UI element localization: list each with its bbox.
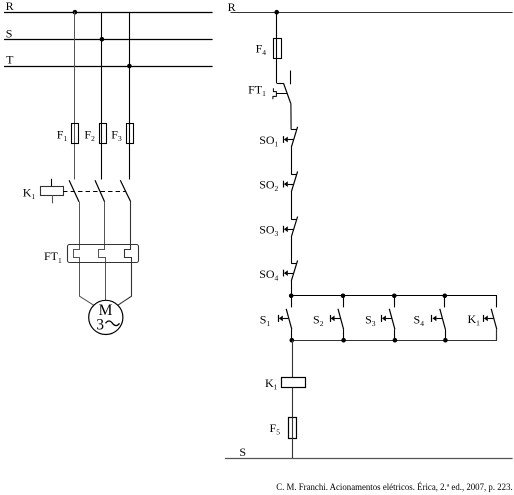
K1 main contact pole 2 blade: [95, 180, 105, 202]
junction dot top bus at S4: [443, 294, 448, 299]
svg-text:SO1: SO1: [259, 133, 278, 149]
wire control phase S line: [225, 458, 513, 460]
junction dot bottom bus at S1: [290, 338, 295, 343]
K1 mechanical linkage (dashed): [63, 191, 126, 193]
svg-text:SO4: SO4: [259, 267, 278, 283]
svg-text:T: T: [6, 52, 14, 66]
junction dot top bus at S2: [341, 294, 346, 299]
junction dot on phase S: [100, 37, 105, 42]
K1 main contact pole 1 blade: [69, 180, 79, 202]
wire L1 drop from R to fuse F1: [74, 12, 76, 179]
contact FT1 NC (thermal relay contact): [273, 71, 291, 104]
svg-text:SO3: SO3: [259, 222, 278, 238]
svg-text:S3: S3: [365, 312, 376, 328]
pushbutton S3 NO: [382, 296, 395, 340]
wire pole1 to FT1 heater 1 and motor: [74, 202, 94, 305]
junction dot top bus at S1: [289, 294, 294, 299]
wire phase R bus: [4, 12, 213, 14]
svg-text:F2: F2: [84, 128, 95, 144]
svg-text:F3: F3: [111, 128, 122, 144]
svg-text:FT1: FT1: [44, 249, 62, 265]
junction dot top bus at S3: [392, 294, 397, 299]
junction dot bottom bus at S3: [393, 338, 398, 343]
svg-text:SO2: SO2: [259, 178, 278, 194]
svg-text:FT1: FT1: [248, 82, 266, 98]
svg-text:S4: S4: [414, 312, 425, 328]
wire pole2 to FT1 heater 2 and motor: [99, 202, 106, 301]
junction dot on phase R: [73, 10, 78, 15]
contactor K1 coil (power side): [41, 179, 64, 204]
svg-text:F1: F1: [57, 128, 68, 144]
pushbutton SO3 NC: [284, 217, 298, 238]
wire from R tap down through fuse F4 to FT1 contact: [276, 12, 278, 83]
svg-text:R: R: [6, 0, 14, 13]
fuse F3: [127, 124, 134, 144]
wire pole3 to FT1 heater 3 and motor: [118, 202, 132, 305]
fuse F2: [100, 124, 107, 144]
fuse F1: [72, 124, 79, 144]
motor M 3-phase: [89, 300, 123, 334]
wire phase S bus: [4, 39, 213, 41]
pushbutton SO4 NC: [284, 260, 298, 281]
wire FT1 contact to SO1: [290, 103, 292, 129]
wire through F5 to S line: [292, 418, 294, 459]
wire L3 drop from T to fuse F3: [129, 12, 131, 179]
contact K1 NO (self-holding aux): [484, 309, 497, 340]
svg-text:S: S: [239, 445, 246, 459]
junction dot on phase T: [127, 64, 132, 69]
svg-text:S1: S1: [260, 312, 271, 328]
K1 main contact pole 3 blade: [120, 180, 130, 202]
svg-text:K1: K1: [468, 312, 481, 328]
wire control phase R line: [231, 12, 513, 14]
pushbutton S4 NO: [432, 296, 446, 340]
pushbutton SO2 NC: [284, 171, 298, 192]
svg-text:3: 3: [96, 317, 104, 334]
wire phase T bus: [4, 66, 213, 68]
pushbutton S2 NO: [331, 296, 344, 340]
wire SO4 to parallel branch top bus: [291, 281, 293, 296]
wire bottom bus to K1 coil: [292, 340, 294, 377]
wire top bus of parallel branch: [291, 296, 496, 308]
wire SO1 to SO2: [291, 147, 293, 174]
svg-text:S: S: [6, 26, 13, 40]
wire SO3 to SO4: [291, 237, 293, 263]
junction dot control tap on R: [274, 10, 279, 15]
svg-text:C. M. Franchi. Acionamentos el: C. M. Franchi. Acionamentos elétricos. É…: [276, 482, 513, 492]
wire SO2 to SO3: [291, 192, 293, 219]
junction dot bottom bus at S4: [443, 338, 448, 343]
svg-text:K1: K1: [265, 376, 278, 392]
svg-text:K1: K1: [23, 186, 36, 202]
svg-text:F4: F4: [256, 42, 267, 58]
wire K1 coil to fuse F5: [292, 388, 294, 418]
wire bottom bus of parallel branch: [292, 329, 497, 340]
fuse F5: [289, 418, 297, 439]
pushbutton S1 NO: [279, 296, 292, 340]
wire L2 drop from S to fuse F2: [101, 12, 103, 179]
thermal overload relay FT1 box: [68, 245, 139, 263]
svg-text:R: R: [228, 0, 236, 14]
contactor coil K1 (control): [282, 378, 306, 388]
pushbutton SO1 NC: [284, 127, 298, 148]
svg-text:S2: S2: [313, 312, 324, 328]
svg-text:F5: F5: [270, 421, 281, 437]
fuse F4: [274, 39, 282, 59]
junction dot bottom bus at S2: [341, 338, 346, 343]
